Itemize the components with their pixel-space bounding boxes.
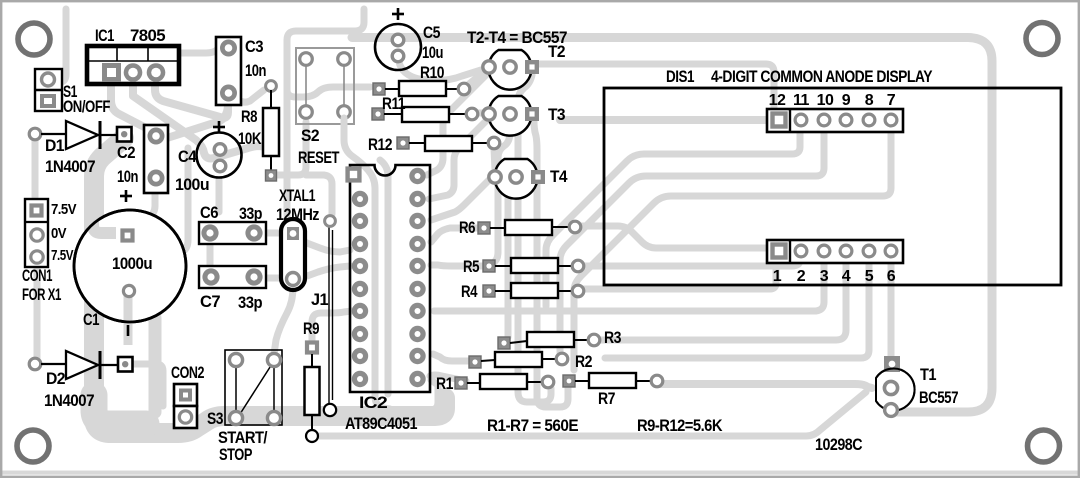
svg-text:100u: 100u [175,175,209,194]
svg-text:R9-R12=5.6K: R9-R12=5.6K [637,416,723,435]
svg-text:33p: 33p [238,293,262,312]
svg-text:1: 1 [773,268,782,285]
svg-text:8: 8 [865,92,874,109]
svg-text:D2: D2 [46,369,65,388]
svg-text:7805: 7805 [130,26,165,45]
svg-text:FOR X1: FOR X1 [22,285,61,304]
svg-text:R11: R11 [382,94,405,113]
svg-text:R6: R6 [459,218,475,237]
svg-text:T2: T2 [548,42,565,61]
svg-text:C6: C6 [200,203,218,222]
svg-text:R3: R3 [604,328,621,347]
svg-text:R12: R12 [368,135,392,154]
svg-text:7: 7 [887,92,896,109]
svg-text:10298C: 10298C [815,435,862,454]
svg-text:C3: C3 [245,37,263,56]
svg-text:7.5V: 7.5V [51,201,77,218]
svg-text:T4: T4 [550,167,568,186]
svg-text:R2: R2 [575,352,592,371]
svg-text:R1: R1 [436,374,453,393]
svg-text:4: 4 [842,268,851,285]
svg-text:9: 9 [842,92,851,109]
svg-text:S3: S3 [207,409,223,428]
svg-text:C1: C1 [83,310,99,329]
svg-text:6: 6 [887,268,896,285]
svg-text:10: 10 [817,92,834,109]
svg-text:11: 11 [793,92,810,109]
svg-text:R5: R5 [463,257,479,276]
svg-text:CON2: CON2 [171,363,204,382]
svg-text:33p: 33p [239,204,262,223]
svg-text:10K: 10K [238,129,262,148]
svg-text:D1: D1 [45,136,64,155]
svg-text:0V: 0V [51,225,67,242]
svg-text:R9: R9 [303,319,319,338]
svg-text:1000u: 1000u [112,254,152,273]
svg-text:BC557: BC557 [919,388,958,407]
svg-text:1N4007: 1N4007 [45,157,95,176]
svg-text:5: 5 [865,268,874,285]
svg-text:10n: 10n [245,61,266,80]
svg-text:1N4007: 1N4007 [44,391,94,410]
svg-text:C4: C4 [178,147,197,166]
svg-text:IC1: IC1 [95,26,114,45]
svg-text:T1: T1 [920,365,936,384]
svg-text:R10: R10 [420,63,444,82]
svg-text:R1-R7 = 560E: R1-R7 = 560E [487,416,578,435]
svg-text:R4: R4 [461,282,478,301]
svg-text:XTAL1: XTAL1 [279,186,315,205]
svg-text:T3: T3 [548,105,565,124]
svg-text:CON1: CON1 [22,266,52,285]
svg-text:R8: R8 [241,107,257,126]
svg-text:R7: R7 [598,389,615,408]
svg-text:2: 2 [797,268,806,285]
svg-text:C5: C5 [423,23,440,42]
svg-text:7.5V: 7.5V [51,247,73,264]
svg-text:C7: C7 [200,292,220,311]
svg-text:12MHz: 12MHz [276,205,319,224]
svg-text:STOP: STOP [219,445,252,464]
svg-text:DIS1: DIS1 [666,67,694,86]
svg-text:IC2: IC2 [359,393,387,412]
svg-text:C2: C2 [117,143,135,162]
svg-text:10n: 10n [117,167,138,186]
svg-text:12: 12 [769,92,786,109]
svg-text:J1: J1 [311,290,328,309]
svg-text:10u: 10u [422,43,443,62]
svg-text:RESET: RESET [298,148,340,167]
svg-text:3: 3 [820,268,829,285]
svg-text:AT89C4051: AT89C4051 [345,414,417,433]
svg-text:S2: S2 [301,126,319,145]
svg-text:4-DIGIT COMMON ANODE DISPLAY: 4-DIGIT COMMON ANODE DISPLAY [711,67,933,86]
svg-text:ON/OFF: ON/OFF [63,97,110,116]
